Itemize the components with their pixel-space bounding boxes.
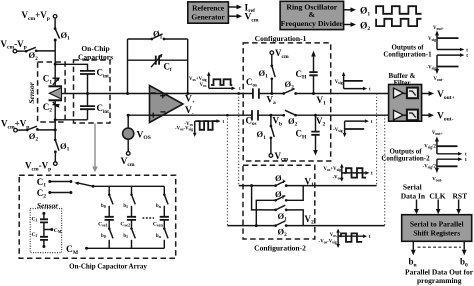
wire Serial Data In arrow bbox=[416, 200, 418, 210]
capacitor Cse1 bbox=[98, 217, 114, 228]
wire bn output arrow bbox=[412, 241, 414, 250]
svg-text:Vos+Vsig: Vos+Vsig bbox=[189, 77, 207, 82]
wire buffer to filter top bbox=[403, 93, 407, 95]
wire dotted V- to config-2 bottom input bbox=[226, 115, 228, 225]
wire phi2 contact to sensor top node bbox=[36, 40, 55, 78]
svg-text:Vsig: Vsig bbox=[335, 80, 343, 85]
svg-text:Serial to Parallel: Serial to Parallel bbox=[410, 219, 464, 228]
selector switch blade with arrow to C1 bbox=[74, 182, 94, 188]
switch phi1 lower-left bbox=[54, 138, 70, 161]
svg-text:Vsig: Vsig bbox=[428, 37, 436, 42]
sensor model CM tap bbox=[44, 228, 62, 234]
switch phi2 lower-left bbox=[17, 126, 55, 142]
ellipsis dots between array columns bbox=[143, 217, 155, 219]
array column 1: switch b0 bottom bbox=[101, 220, 113, 248]
wire config-2 top input line (V1 net) bbox=[239, 185, 377, 187]
svg-text:-Vsig: -Vsig bbox=[427, 65, 437, 70]
svg-text:-Vos: -Vos bbox=[333, 176, 342, 181]
svg-text:bn: bn bbox=[156, 234, 162, 239]
block Serial to Parallel Shift Registers bbox=[402, 215, 472, 242]
svg-text:Shift Registers: Shift Registers bbox=[413, 229, 460, 238]
svg-text:Configuration-1: Configuration-1 bbox=[255, 34, 307, 43]
node C2 select stub bbox=[37, 188, 73, 200]
switch phi1 (config-2 row2, cross V2 to V1) bbox=[274, 186, 303, 202]
wire config-2 bottom input line (V2 net) bbox=[227, 225, 384, 227]
switch phi2 (config-1 top sampling) bbox=[282, 79, 297, 95]
wire op-amp noninverting input line (sensor to op-amp and V+ output run) bbox=[62, 93, 389, 95]
waveform glyph node V2 (chopped) bbox=[319, 229, 371, 248]
wire array top bus bbox=[93, 185, 164, 187]
waveform glyph V+ (Vos/Vos+Vsig) bbox=[189, 72, 241, 92]
buffer amplifier bottom bbox=[394, 110, 404, 120]
sensor dashed enclosure bbox=[38, 62, 66, 122]
waveform graph Vout- (config-1) bbox=[427, 53, 469, 82]
wire from Vcm+Vp terminal to switch phi1 bbox=[54, 18, 56, 28]
switch phi1 (config-2 row3, cross V1 to V2) bbox=[274, 205, 303, 225]
capacitor Cse2 bbox=[120, 217, 136, 228]
switch phi1 (config-1 bottom, Vb reset) bbox=[257, 114, 275, 154]
array column n: switch bn top bbox=[156, 186, 168, 217]
sensor model capacitor C1 bbox=[32, 212, 49, 223]
op-amp U1 bbox=[150, 86, 184, 123]
switch phi2 upper-left bbox=[17, 47, 38, 62]
waveform graph Vout+ (config-1) bbox=[428, 26, 468, 53]
svg-text:Serial: Serial bbox=[403, 182, 422, 191]
wire Iref output arrow bbox=[228, 6, 236, 8]
svg-text:Configuration-1: Configuration-1 bbox=[383, 51, 432, 59]
svg-text:Vout-: Vout- bbox=[433, 77, 444, 82]
svg-text:Vout-: Vout- bbox=[432, 177, 443, 182]
gray arrow from on-chip capacitors to capacitor array bbox=[92, 124, 98, 173]
svg-text:Sensor: Sensor bbox=[27, 82, 36, 103]
svg-text:Configuration-2: Configuration-2 bbox=[381, 154, 430, 162]
waveform graph Vout+ (config-2) bbox=[424, 131, 467, 158]
wire b0 output arrow bbox=[463, 241, 465, 250]
enclosure Configuration-1 dashed box bbox=[243, 43, 331, 161]
wire op-amp inverting input line (Vos tap to op-amp and V- output run) bbox=[128, 114, 388, 116]
wire Vout+ output arrow bbox=[422, 93, 429, 95]
wire Cint2 bottom to sensor bottom node bbox=[55, 119, 87, 121]
voltage source Vos bbox=[123, 114, 151, 141]
svg-text:b1: b1 bbox=[123, 204, 128, 209]
svg-text:Filter: Filter bbox=[394, 79, 411, 87]
waveform glyph node V1 (chopped) bbox=[324, 164, 374, 182]
node Vcm terminal below Vos bbox=[126, 152, 130, 156]
switch phi1 feedback (reset) bbox=[128, 29, 188, 41]
svg-text:b0: b0 bbox=[101, 234, 106, 239]
wire phi2 clock output arrow bbox=[344, 24, 351, 26]
capacitor Cf (variable feedback) bbox=[128, 54, 188, 73]
sensor element (variable bridge capacitor pair) bbox=[49, 78, 63, 108]
capacitor Csen bbox=[153, 217, 169, 228]
on-chip capacitors dashed enclosure bbox=[74, 60, 111, 123]
svg-text:CLK: CLK bbox=[429, 191, 445, 200]
svg-text:RST: RST bbox=[453, 191, 468, 200]
waveform glyph V2 step (-Vsig) bbox=[333, 119, 373, 137]
array column 1: switch b0 top bbox=[101, 186, 113, 217]
node Vcm terminal (config-1 bottom) bbox=[269, 154, 273, 158]
svg-text:Sensor: Sensor bbox=[37, 201, 58, 210]
svg-text:Frequency Divider: Frequency Divider bbox=[281, 19, 344, 28]
svg-text:Cse1: Cse1 bbox=[98, 221, 108, 227]
switch phi2 (config-2 row4, V2 straight) bbox=[274, 221, 287, 238]
wire Vout- output arrow bbox=[422, 114, 429, 116]
svg-text:Configuration-2: Configuration-2 bbox=[254, 243, 306, 252]
array column 2: switch b1 bottom bbox=[123, 220, 135, 248]
svg-text:Vcm-Vp: Vcm-Vp bbox=[25, 161, 51, 173]
wire buffer to filter bottom bbox=[403, 114, 407, 116]
capacitor CH (top hold) bbox=[296, 51, 318, 95]
waveform glyph V1 step (Vsig) bbox=[335, 72, 371, 93]
svg-text:Reference: Reference bbox=[192, 4, 225, 13]
wire dotted config-2 V1 output up to buffer top input bbox=[376, 94, 378, 186]
block Ring Oscillator and Frequency Divider bbox=[280, 1, 344, 29]
svg-text:Generator: Generator bbox=[191, 13, 225, 22]
svg-text:Cse2: Cse2 bbox=[120, 221, 130, 227]
svg-text:programming: programming bbox=[417, 276, 462, 285]
filter block bottom (LPF) bbox=[407, 110, 418, 121]
wire CLK arrow bbox=[437, 200, 439, 210]
dashed continuation between bit outputs bbox=[418, 246, 462, 248]
svg-text:Vsig/2: Vsig/2 bbox=[424, 145, 436, 150]
switch phi2 (config-2 row1, V1 straight) bbox=[274, 173, 287, 187]
capacitor CH (bottom hold) bbox=[296, 114, 320, 156]
feedback network right vertical wire bbox=[187, 39, 189, 94]
capacitor Cint1 bbox=[80, 68, 109, 94]
wire sensor bottom to lower switches bbox=[54, 105, 56, 140]
wire Vos to Vcm terminal bbox=[127, 139, 129, 151]
sensor model capacitor C2 bbox=[32, 222, 49, 248]
switch phi1 (config-1 top, Va reset) bbox=[259, 55, 276, 94]
block Reference Generator bbox=[188, 2, 229, 23]
wire top-input branch down to row3 bbox=[252, 186, 276, 210]
waveform phi2 clock bbox=[376, 19, 421, 26]
wire Vcm output arrow bbox=[228, 15, 236, 17]
enclosure Configuration-2 dashed box bbox=[243, 165, 315, 239]
svg-text:b1: b1 bbox=[123, 234, 128, 239]
svg-text:-Vos-Vsig: -Vos-Vsig bbox=[319, 240, 337, 245]
wire +input line across op-amp bbox=[150, 93, 169, 95]
switch phi2 (config-1 bottom sampling) bbox=[282, 110, 297, 127]
svg-text:Vos: Vos bbox=[330, 233, 337, 238]
wire RST arrow bbox=[458, 200, 460, 210]
buffer amplifier top bbox=[394, 88, 404, 98]
capacitor Cos (bottom offset-storage) bbox=[246, 110, 259, 127]
wire bottom-input branch up to row2 bbox=[256, 200, 275, 225]
svg-text:-Vsig: -Vsig bbox=[333, 128, 343, 133]
node Vcm-Vp upper-left terminal bbox=[13, 49, 17, 53]
svg-text:Data In: Data In bbox=[401, 191, 426, 200]
waveform phi1 clock bbox=[376, 6, 421, 14]
array column n: switch bn bottom bbox=[156, 220, 168, 248]
filter block top (LPF) bbox=[407, 88, 418, 99]
junction Cint leads on +input line bbox=[86, 92, 89, 95]
wire phi1 clock output arrow bbox=[344, 9, 351, 11]
wire sensor top node to Cint1 bbox=[55, 64, 87, 70]
wire array bottom bus bbox=[87, 247, 165, 249]
svg-text:On-Chip Capacitor Array: On-Chip Capacitor Array bbox=[69, 263, 147, 271]
svg-text:Capacitors: Capacitors bbox=[78, 53, 113, 62]
switch phi1 top-left bbox=[54, 27, 70, 41]
svg-text:b0: b0 bbox=[101, 204, 106, 209]
wire dotted config-2 V2 output up to buffer bottom input bbox=[384, 115, 386, 225]
node Vcm+Vp top terminal bbox=[53, 14, 57, 18]
sensor model dotted box bbox=[30, 209, 61, 253]
waveform graph Vout- (config-2) bbox=[423, 157, 467, 182]
svg-text:Csen: Csen bbox=[153, 221, 164, 227]
svg-text:Vout+: Vout+ bbox=[433, 26, 444, 31]
waveform glyph V- (-Vos/-Vos-Vsig) bbox=[175, 119, 224, 137]
svg-text:-Vos-Vsig: -Vos-Vsig bbox=[175, 127, 193, 132]
svg-text:&: & bbox=[309, 10, 316, 19]
block Buffer and Filter bbox=[389, 72, 422, 121]
svg-text:bn: bn bbox=[156, 204, 162, 209]
svg-text:Vcm+Vp: Vcm+Vp bbox=[22, 10, 50, 22]
svg-text:Vos: Vos bbox=[200, 83, 207, 88]
svg-text:Vout+: Vout+ bbox=[432, 131, 443, 136]
feedback network left vertical wire bbox=[127, 39, 129, 94]
node C1 select stub bbox=[37, 177, 73, 189]
enclosure On-Chip Capacitor Array dashed box bbox=[19, 175, 176, 258]
node Vcm-Vp lower terminal bbox=[54, 162, 58, 166]
node Vcm terminal (config-1 top) bbox=[270, 51, 274, 55]
capacitor Cos (top offset-storage) bbox=[246, 77, 259, 99]
wire dotted V+ to config-2 top input bbox=[238, 94, 240, 186]
array column 2: switch b1 top bbox=[123, 186, 135, 217]
wire -input line across op-amp bbox=[150, 114, 163, 116]
node Vcm+Vp lower-left terminal bbox=[14, 128, 18, 132]
svg-text:Vos+Vsig: Vos+Vsig bbox=[324, 167, 342, 172]
svg-text:-Vsig/2: -Vsig/2 bbox=[423, 165, 437, 170]
capacitor Cint2 bbox=[80, 94, 109, 120]
svg-text:Vcm-Vp: Vcm-Vp bbox=[1, 39, 27, 51]
